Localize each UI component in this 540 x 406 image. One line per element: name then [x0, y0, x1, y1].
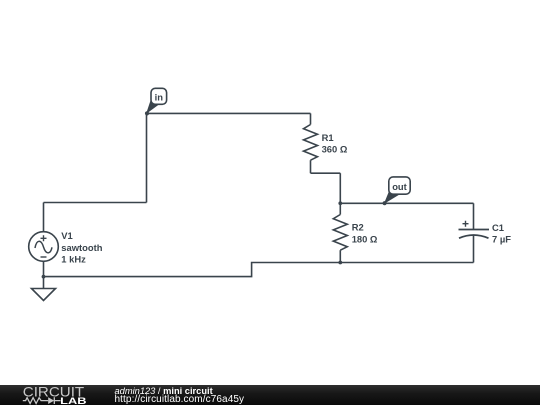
svg-text:sawtooth: sawtooth: [61, 242, 102, 253]
svg-text:C1: C1: [492, 222, 504, 233]
resistor R2: [333, 203, 378, 262]
ground: [32, 277, 56, 301]
svg-text:LAB: LAB: [60, 395, 86, 405]
wire: in node to R1 top (horizontal): [147, 112, 311, 114]
wire: V1 bottom lead: [43, 261, 45, 276]
resistor R1: [304, 113, 348, 173]
footer bar: [0, 385, 540, 405]
svg-text:R1: R1: [322, 132, 334, 143]
junction at R2 bottom: [338, 261, 342, 265]
svg-text:180 Ω: 180 Ω: [352, 233, 378, 244]
wire: bottom rail left with step: [44, 263, 341, 277]
capacitor C1: [459, 203, 512, 262]
logo diode: [48, 397, 54, 404]
node in label: [145, 88, 167, 115]
wire: out rail horizontal: [340, 202, 473, 204]
svg-text:V1: V1: [61, 230, 72, 241]
wire: in node down to left branch corner: [146, 113, 148, 202]
svg-text:1 kHz: 1 kHz: [61, 253, 86, 264]
wire: left branch horizontal above V1: [44, 202, 147, 204]
svg-text:in: in: [155, 92, 164, 103]
wire: bottom rail right (R2 to C1): [340, 262, 473, 264]
voltage source V1: [29, 230, 103, 264]
wire: V1 top lead: [43, 203, 45, 233]
svg-text:R2: R2: [352, 222, 364, 233]
wire: down to out rail: [339, 173, 341, 203]
wire: R1 bottom to R2 column: [311, 172, 341, 174]
CircuitLab logo: [14, 385, 114, 406]
svg-text:360 Ω: 360 Ω: [322, 144, 348, 155]
svg-text:out: out: [392, 181, 407, 192]
logo resistor zigzag: [23, 397, 48, 403]
svg-text:7 µF: 7 µF: [492, 233, 511, 244]
junction at R2 top: [338, 201, 342, 205]
junction at V1 bottom: [42, 275, 46, 279]
node out label: [383, 177, 411, 205]
footer text: [114, 384, 116, 386]
